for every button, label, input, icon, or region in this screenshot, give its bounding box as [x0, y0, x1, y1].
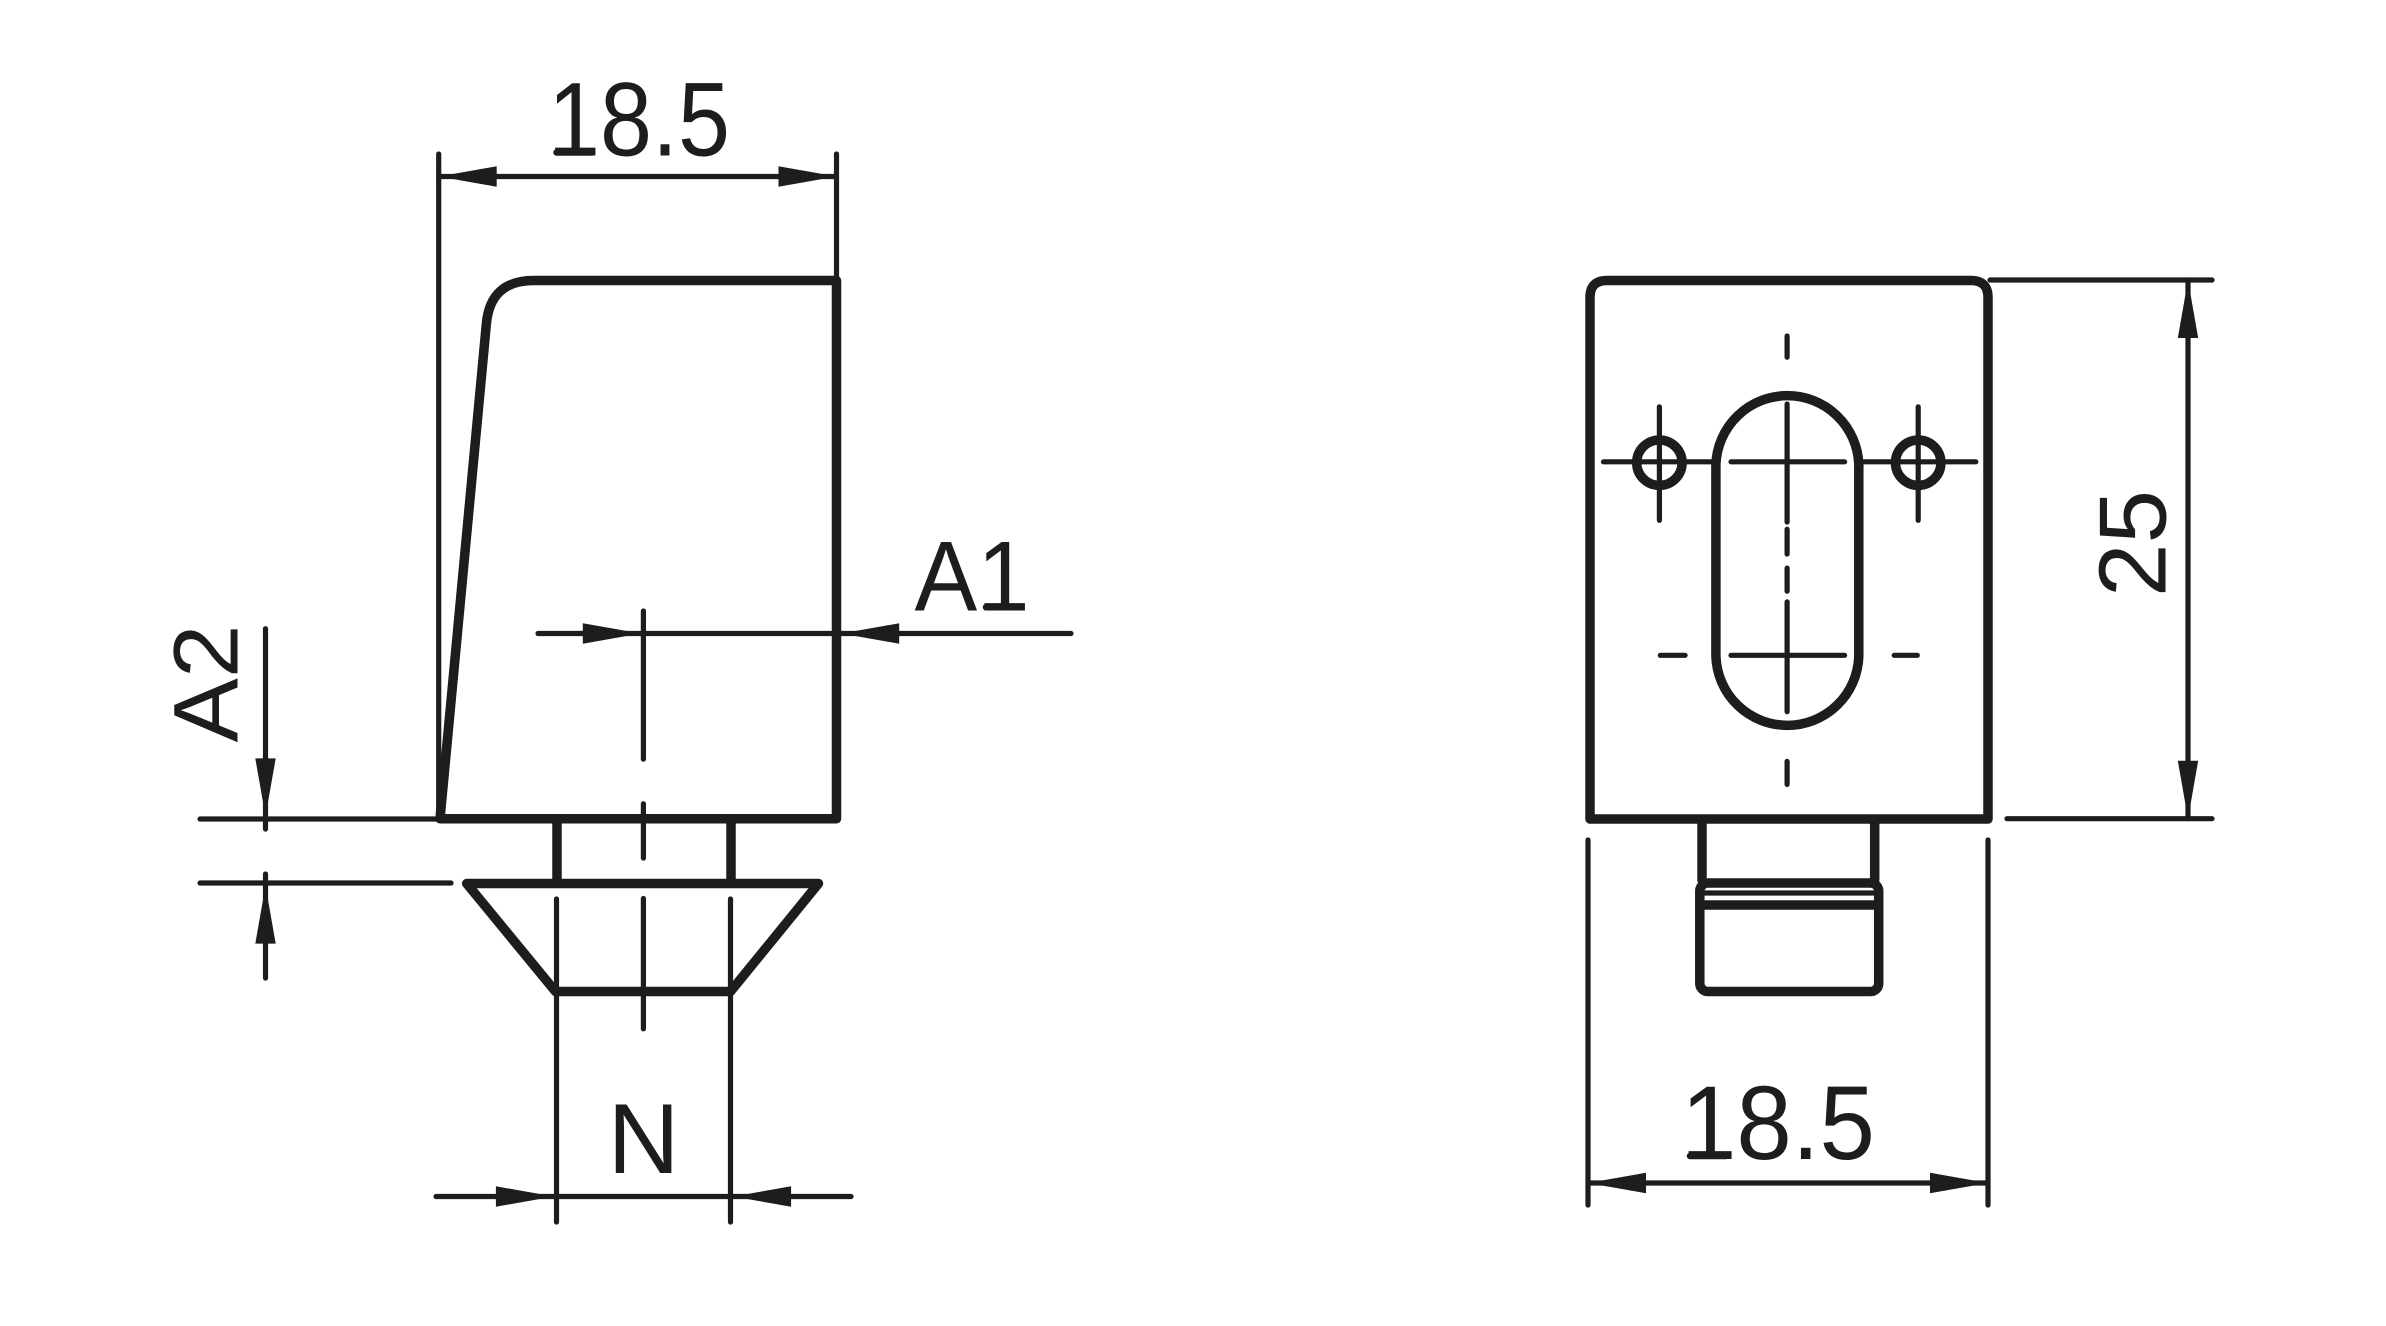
- hole left vertical centerline: [1657, 407, 1662, 521]
- nut block thick line: [1701, 900, 1877, 910]
- dimension N : dimension line: [436, 1194, 851, 1199]
- dimension 25 : dimension line: [2185, 280, 2190, 819]
- dimension N : extension lines: [557, 899, 731, 1222]
- dimension N : arrowheads: [496, 1186, 554, 1206]
- dimension A2 : extension lines: [200, 819, 451, 883]
- slot (obround): [1716, 396, 1859, 726]
- stem neck right: [1870, 821, 1880, 880]
- hole left: [1637, 440, 1682, 485]
- serif foot for digit 1 of A1: [986, 604, 1021, 611]
- body outline (side view): [440, 281, 837, 819]
- dimension A1 : dimension line: [538, 631, 1071, 636]
- nut block thin line: [1704, 890, 1874, 895]
- dimension A2 : dimension lines: [263, 629, 268, 829]
- svg-text:A2: A2: [156, 625, 258, 743]
- svg-text:25: 25: [2081, 490, 2187, 597]
- dimension 18.5 (bottom right) : arrowheads: [1588, 1173, 1646, 1193]
- svg-text:N: N: [608, 1084, 680, 1195]
- hole right: [1896, 440, 1941, 485]
- dimension 18.5 (top) : arrowheads: [439, 166, 497, 186]
- dimension 18.5 (top) : extension lines: [439, 154, 837, 816]
- stem neck left: [1697, 821, 1707, 880]
- neck left edge: [552, 819, 562, 883]
- hole right vertical centerline: [1916, 407, 1921, 521]
- dimension A1 : arrowheads: [583, 623, 641, 643]
- centerline (left view): [641, 611, 646, 1029]
- horizontal centerline through holes: [1604, 459, 1976, 464]
- dimension 25 : extension lines: [1990, 280, 2212, 819]
- neck right edge: [726, 819, 736, 883]
- nut block (rounded rect): [1700, 883, 1879, 992]
- dimension A2 : arrowheads: [255, 758, 275, 816]
- serif foot for digit 1 of top 18.5: [557, 149, 593, 156]
- dimension 18.5 (bottom right) : dimension line: [1588, 1180, 1988, 1185]
- horizontal centerline lower arc: [1660, 653, 1917, 658]
- dimension 18.5 (bottom right) : extension lines: [1588, 840, 1988, 1205]
- front face plate (rounded top corners): [1590, 281, 1988, 820]
- svg-text:18.5: 18.5: [1681, 1065, 1875, 1182]
- vertical centerline (right view, dashed): [1784, 336, 1789, 784]
- serif foot for digit 1 of bottom 18.5: [1690, 1153, 1726, 1160]
- svg-text:18.5: 18.5: [548, 62, 730, 179]
- dimension 18.5 (top) : dimension line: [439, 174, 837, 179]
- svg-text:A1: A1: [915, 521, 1030, 632]
- dimension 25 : arrowheads: [2178, 280, 2198, 338]
- flange (countersunk trapezoid): [467, 884, 819, 992]
